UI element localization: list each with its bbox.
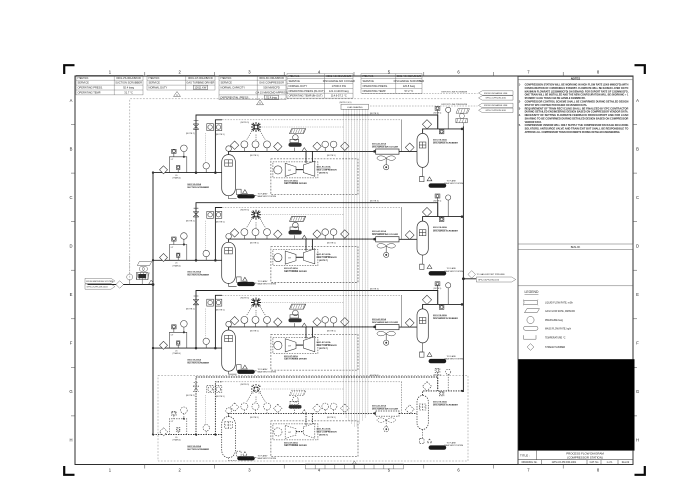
stream diamond on metering inlet (116, 281, 124, 289)
compressor train A (152, 106, 463, 198)
svg-text:STANDBY. EACH TRAIN CAN BE HAN: STANDBY. EACH TRAIN CAN BE HANDLE 333MMS… (525, 97, 586, 100)
svg-text:0001-GT-001A/B/C/D: 0001-GT-001A/B/C/D (188, 76, 213, 80)
svg-text:3-: 3- (519, 108, 521, 110)
battery limit dashed boundary (130, 99, 463, 284)
svg-text:1: 1 (109, 70, 112, 75)
signal: export line flowrate (362, 93, 478, 95)
svg-text:8: 8 (597, 468, 600, 473)
sidebar divider line (517, 76, 519, 465)
svg-text:NORMAL CAPACITY: NORMAL CAPACITY (221, 86, 246, 90)
grid reference ticks and labels (69, 70, 639, 473)
svg-text:GAS COMPRESSOR: GAS COMPRESSOR (259, 81, 284, 85)
drawing number row (518, 460, 633, 465)
signal lead to inlet instrument (129, 256, 131, 274)
border frame (75, 76, 633, 465)
future train D boundary (dashed) (158, 376, 468, 462)
svg-text:VENDOR DATA.: VENDOR DATA. (525, 121, 543, 124)
svg-text:TEMPERATURE °C: TEMPERATURE °C (545, 337, 566, 340)
highlight box around T3 diff press value (265, 95, 279, 99)
equipment table: gas turbine driver (147, 75, 215, 90)
load sharing signal bundle (343, 109, 368, 427)
svg-text:COMPRESSION STATION WILL BE WO: COMPRESSION STATION WILL BE WORKING IN H… (525, 84, 629, 87)
station inlet filter body (hatched) (136, 273, 148, 280)
svg-text:1-: 1- (519, 85, 521, 87)
svg-text:0001-VS-001A/B/C/D: 0001-VS-001A/B/C/D (116, 76, 141, 80)
svg-text:31.7 °C: 31.7 °C (124, 91, 133, 95)
svg-text:5-: 5- (519, 125, 521, 127)
legend: mass flow rate symbol (524, 326, 539, 330)
svg-text:F: F (70, 341, 73, 346)
svg-text:GPS-CS-PR-DW-1004: GPS-CS-PR-DW-1004 (87, 287, 109, 289)
svg-text:A: A (636, 98, 639, 103)
svg-text:OPERATING PRESS.: OPERATING PRESS. (363, 84, 389, 88)
svg-text:DISCHARGE SCRUBBER: DISCHARGE SCRUBBER (394, 79, 425, 83)
svg-text:SERVICE: SERVICE (78, 81, 90, 85)
svg-text:F: F (636, 341, 639, 346)
equipment table: discharge scrubber (361, 74, 422, 94)
svg-text:GPS-CS-PR-DW-1010: GPS-CS-PR-DW-1010 (478, 280, 500, 282)
svg-text:2: 2 (179, 468, 182, 473)
NOTES header bar (518, 77, 633, 80)
inlet filter instruments (139, 266, 144, 271)
svg-text:3: 3 (248, 468, 251, 473)
station inlet filter flag (137, 262, 151, 266)
svg-text:C: C (636, 195, 639, 200)
svg-text:OPERATING TEMP.(IN-OUT): OPERATING TEMP.(IN-OUT) (289, 94, 323, 98)
svg-text:NOTES: NOTES (571, 76, 580, 80)
svg-text:1: 1 (259, 101, 261, 105)
svg-text:SERVICE: SERVICE (149, 81, 161, 85)
svg-text:4-: 4- (519, 114, 521, 117)
svg-text:MASS FLOW RATE, kg/h: MASS FLOW RATE, kg/h (545, 328, 572, 331)
svg-text:NORMAL DUTY: NORMAL DUTY (149, 86, 168, 90)
svg-text:E: E (70, 292, 73, 297)
svg-text:E: E (636, 292, 639, 297)
svg-text:DISCHARGE AIR COOLER: DISCHARGE AIR COOLER (323, 79, 355, 83)
legend: stream number symbol (527, 344, 534, 351)
legend: liquid flow rate symbol (523, 300, 538, 306)
svg-text:FROM DISCHARGE LINE: FROM DISCHARGE LINE (484, 104, 508, 107)
svg-text:4: 4 (318, 468, 321, 473)
header vent silencer stack (456, 109, 470, 127)
load sharing controller box (341, 104, 369, 109)
legend: gas flow rate symbol (525, 309, 540, 313)
svg-text:D: D (636, 244, 639, 249)
svg-text:(NOTE 2,4,5): (NOTE 2,4,5) (340, 102, 352, 104)
svg-text:GAS FLOW RATE, MMSCFD: GAS FLOW RATE, MMSCFD (545, 310, 575, 313)
svg-text:2: 2 (179, 70, 182, 75)
svg-text:ITEM NO.: ITEM NO. (149, 76, 161, 80)
signal: export line pressure (370, 105, 478, 107)
from discharge line label boxes (479, 91, 514, 113)
svg-text:92.4 barg: 92.4 barg (123, 86, 135, 90)
svg-text:LOAD SHARING: LOAD SHARING (347, 106, 363, 109)
corner trim marks (64, 65, 645, 475)
svg-text:EXPORT LINE FLOWRATE: EXPORT LINE FLOWRATE (442, 91, 468, 94)
svg-text:DIFFERENTIAL PRESS.: DIFFERENTIAL PRESS. (221, 95, 250, 99)
note triangle under table 2 (174, 92, 181, 97)
svg-text:TO GAS EXPORT PIPELINE: TO GAS EXPORT PIPELINE (477, 273, 506, 276)
svg-text:OPERATING PRESS.(IN-OUT): OPERATING PRESS.(IN-OUT) (289, 89, 325, 93)
svg-text:SUCTION SCRUBBER: SUCTION SCRUBBER (115, 81, 142, 85)
svg-text:17000.6 KW: 17000.6 KW (332, 84, 347, 88)
svg-text:ITEM NO.: ITEM NO. (78, 76, 90, 80)
svg-text:GAS TURBINE DRIVER: GAS TURBINE DRIVER (186, 81, 214, 85)
svg-text:0001-VS-002A/B/C/D: 0001-VS-002A/B/C/D (397, 74, 422, 78)
legend box top line (518, 285, 633, 287)
svg-text:FROM DISCHARGE LINE: FROM DISCHARGE LINE (484, 92, 508, 95)
svg-text:1: 1 (176, 93, 178, 97)
stream diamond on export line (468, 271, 476, 279)
svg-text:3: 3 (248, 70, 251, 75)
equipment table: suction scrubber (76, 75, 143, 95)
svg-text:6: 6 (457, 70, 460, 75)
highlight box around T2 duty value (194, 85, 208, 89)
svg-text:FROM METERING SYSTEM: FROM METERING SYSTEM (86, 281, 113, 283)
svg-text:LIQUID FLOW RATE, m3/h: LIQUID FLOW RATE, m3/h (545, 302, 574, 305)
svg-text:121.3-120.8 barg: 121.3-120.8 barg (329, 89, 349, 93)
svg-text:COMPRESSOR CONTROL SCHEME SHAL: COMPRESSOR CONTROL SCHEME SHALL BE CONFI… (525, 101, 629, 104)
svg-text:6: 6 (457, 468, 460, 473)
svg-text:TITLE :: TITLE : (520, 454, 530, 458)
svg-text:H: H (636, 438, 639, 443)
svg-text:COMPRESSOR VENDOR WILL ONLY SU: COMPRESSOR VENDOR WILL ONLY SUPPLY THE C… (525, 124, 629, 127)
svg-text:114.6-57.2 °C: 114.6-57.2 °C (331, 94, 347, 98)
title row (518, 450, 633, 459)
svg-text:APPROVE ALL COMPRESSOR TRAIN D: APPROVE ALL COMPRESSOR TRAIN DOCUMENTS D… (525, 131, 621, 134)
wire: suction distribution header (152, 173, 154, 435)
svg-text:0001-KC-001A/B/C/D: 0001-KC-001A/B/C/D (259, 76, 284, 80)
export drawing number pointed box (476, 277, 515, 282)
svg-text:DRAWING No.: DRAWING No. (522, 461, 538, 464)
compressor train C (152, 282, 463, 374)
svg-text:5: 5 (388, 468, 391, 473)
svg-text:STEP BY EPC CONTRACTOR BASED O: STEP BY EPC CONTRACTOR BASED ON VENDOR D… (525, 104, 588, 107)
equipment table: discharge air cooler (287, 74, 353, 99)
svg-text:(COMPRESSOR STATION): (COMPRESSOR STATION) (567, 455, 603, 459)
svg-text:57.2 °C: 57.2 °C (405, 89, 414, 93)
svg-text:OPERATING PRESS.: OPERATING PRESS. (78, 86, 104, 90)
svg-text:OPERATING TEMP.: OPERATING TEMP. (363, 89, 387, 93)
svg-text:0001-AC-001A/B/C/D: 0001-AC-001A/B/C/D (326, 74, 351, 78)
note triangle at inlet filter (149, 280, 154, 284)
svg-text:1: 1 (109, 468, 112, 473)
svg-text:7: 7 (527, 468, 530, 473)
compressor train D (future, dashed) (152, 368, 463, 460)
svg-text:SOLATORS, ANTISURGE VALVE AND: SOLATORS, ANTISURGE VALVE AND TRAIN EXIT… (525, 128, 629, 131)
wire: export line (463, 278, 476, 280)
instrument circle PI on inlet (127, 274, 133, 280)
svg-text:ITEM NO.: ITEM NO. (363, 74, 375, 78)
svg-text:MAXIMUM FLOWRATE (1333MMSCFD): MAXIMUM FLOWRATE (1333MMSCFD) ON DEMAND.… (525, 90, 629, 93)
svg-text:GPS-CO-PR-DW-1010: GPS-CO-PR-DW-1010 (485, 98, 506, 100)
svg-text:SERVICE: SERVICE (289, 79, 301, 83)
svg-text:NORMAL DUTY: NORMAL DUTY (289, 84, 308, 88)
svg-text:SHARING TO BE CONFIRMED DURING: SHARING TO BE CONFIRMED DURING DETAILED … (525, 117, 629, 120)
svg-text:A: A (70, 98, 73, 103)
title block black area (518, 359, 634, 450)
svg-text:NECESSITY OF SETTING FLOWRATE: NECESSITY OF SETTING FLOWRATE FEEDBACK F… (525, 114, 629, 117)
svg-text:ITEM NO.: ITEM NO. (289, 74, 301, 78)
equipment table: gas compressor (219, 75, 286, 100)
svg-text:PRESSURE barg: PRESSURE barg (545, 319, 564, 322)
svg-text:7: 7 (527, 70, 530, 75)
svg-text:ITEM NO.: ITEM NO. (221, 76, 233, 80)
legend: pressure symbol (527, 316, 534, 323)
svg-text:STREAM NUMBER: STREAM NUMBER (545, 346, 566, 349)
compressor train B (152, 194, 463, 286)
svg-text:8: 8 (597, 70, 600, 75)
graphic scale bar (305, 461, 403, 469)
note triangle under table 3 (257, 100, 264, 105)
svg-text:SERVICE: SERVICE (363, 79, 375, 83)
svg-text:CAT. No: CAT. No (590, 461, 599, 464)
notes text (519, 84, 629, 134)
svg-text:C: C (69, 195, 72, 200)
signal connectors to trains (262, 127, 344, 389)
from metering label box (85, 278, 115, 289)
svg-text:DURING DETAILED ENGINEERING DE: DURING DETAILED ENGINEERING DESIGN BASED… (525, 111, 629, 114)
svg-text:120.8 barg: 120.8 barg (403, 84, 416, 88)
wire: inlet from metering (88, 284, 154, 286)
svg-text:LEGEND: LEGEND (525, 290, 539, 294)
svg-text:SERVICE: SERVICE (221, 81, 233, 85)
svg-text:B: B (70, 146, 73, 151)
svg-text:500 MMSCFD: 500 MMSCFD (263, 86, 280, 90)
svg-text:H: H (69, 438, 72, 443)
svg-text:1 of 1: 1 of 1 (607, 461, 614, 464)
svg-text:(14.15 MMSCMD APPROX): (14.15 MMSCMD APPROX) (255, 91, 287, 95)
legend: temperature symbol (524, 335, 537, 339)
svg-text:B: B (636, 146, 639, 151)
svg-text:ONE TRAIN WILL BE INSTALLED AN: ONE TRAIN WILL BE INSTALLED AND THE NEW … (525, 94, 630, 97)
svg-text:12611 KW: 12611 KW (194, 86, 206, 90)
svg-text:G: G (69, 389, 72, 394)
svg-text:CONFIGURATION OF 3 WORKING/1 S: CONFIGURATION OF 3 WORKING/1 STANDBY. FL… (525, 87, 629, 90)
svg-text:GPS-CO-PR-DW-1001: GPS-CO-PR-DW-1001 (552, 461, 577, 464)
svg-text:REQUIREMENT OF TRAIN RECYCLING: REQUIREMENT OF TRAIN RECYCLING SHALL BE … (525, 107, 629, 110)
BESLOK bar (518, 244, 633, 249)
wire: discharge collection header (462, 126, 464, 392)
svg-text:G: G (636, 389, 639, 394)
svg-text:OPERATING TEMP.: OPERATING TEMP. (78, 91, 102, 95)
svg-text:D: D (69, 244, 72, 249)
svg-text:Rev.02: Rev.02 (622, 461, 630, 464)
svg-text:BESLOK: BESLOK (571, 246, 581, 249)
svg-text:EXPORT LINE PRESSURE: EXPORT LINE PRESSURE (442, 104, 468, 106)
svg-text:GPS-CO-PR-DW-1010: GPS-CO-PR-DW-1010 (485, 110, 506, 112)
svg-text:2-: 2- (519, 102, 521, 104)
